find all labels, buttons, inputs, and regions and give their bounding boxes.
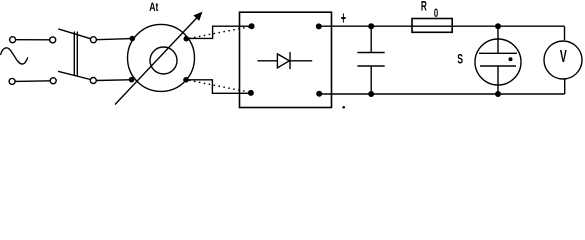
svg-text:R: R (421, 0, 427, 13)
svg-text:At: At (149, 0, 158, 14)
svg-text:V: V (560, 46, 567, 66)
svg-text:0: 0 (434, 8, 438, 20)
svg-text:S: S (457, 51, 463, 67)
svg-text:+: + (341, 8, 346, 28)
